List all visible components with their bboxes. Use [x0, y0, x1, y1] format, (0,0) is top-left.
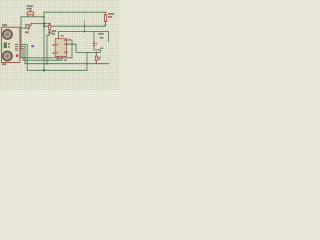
- wire top power rail: [44, 11, 106, 13]
- label near IC bottom right: [64, 59, 67, 61]
- wire R2 bottom to x=47 down: [47, 35, 50, 64]
- wire x=87 riser: [86, 52, 88, 70]
- IC right pins red: [66, 40, 68, 52]
- module label bottom: [2, 63, 7, 65]
- buzzer BUZ1 body: [27, 10, 34, 17]
- wire x=27 down / bottom y=70.3: [27, 44, 87, 70]
- blue text label: [31, 45, 34, 47]
- module label top: [2, 24, 7, 26]
- wire y=26.2: [44, 25, 106, 27]
- module pin labels: [15, 44, 18, 51]
- IC bottom pins red: [58, 57, 62, 59]
- R3 labels: [98, 57, 101, 60]
- crystal green: [4, 43, 7, 48]
- no-connect cross at IC bottom pin 1: [57, 58, 59, 60]
- buzzer label text: [27, 5, 33, 9]
- label right of LED lead: [100, 48, 103, 50]
- red pads: [8, 43, 10, 45]
- button label text: [25, 31, 29, 33]
- wire x=72 from IC pin down: [68, 40, 72, 58]
- button/sensor component: [26, 24, 31, 30]
- junction (44,26.2): [43, 25, 45, 27]
- label right mid (Mod): [98, 33, 103, 39]
- resistor R3 (right lower): [95, 53, 97, 64]
- resistor R1 labels: [108, 13, 114, 18]
- junction (84.5,26.2): [84, 25, 86, 27]
- wire riser to button: [30, 23, 32, 25]
- junction (84.5,31.5): [84, 31, 86, 33]
- background grid: [0, 0, 120, 90]
- junction (47,63.7): [46, 63, 48, 65]
- pin number near IC top pin: [61, 35, 64, 37]
- wire x=23 down / y=60.2 to IC bottom pin: [23, 48, 62, 60]
- junction (44,23.4): [43, 23, 45, 25]
- junction (96.3,52.4): [96, 52, 97, 53]
- module pins red: [20, 44, 22, 50]
- pin name texts right of IC: [67, 43, 69, 44]
- wire IC top pin stub: [58, 32, 60, 36]
- wire x=25 down / bottom rail y=63.7: [25, 46, 109, 63]
- wire rail y=31.5 with corner down at x=108.5: [59, 32, 109, 42]
- wire y=57.8 to IC right pin 1: [21, 57, 72, 59]
- wire buzzer row y=16.8: [21, 16, 44, 18]
- wire x=94 LED feed: [93, 32, 95, 42]
- junction (44,16.8): [43, 16, 45, 18]
- resistor R2 label: [48, 32, 52, 34]
- IC pin numbers: [56, 39, 66, 59]
- resistor R1 (top right): [104, 12, 106, 26]
- IC top pin red: [58, 35, 60, 38]
- transducer bottom: [3, 51, 12, 60]
- wire vertical x=44: [43, 12, 45, 70]
- wire IC right pin 2 to y=52.4 run and LED drop: [68, 44, 100, 52]
- wire x=84.5 short vertical: [84, 21, 86, 32]
- LED D1: [93, 41, 98, 49]
- IC label U1: [52, 30, 56, 35]
- module pin wires green: [22, 44, 28, 48]
- IC left pins dangling: [54, 45, 56, 53]
- wire left vertical x=21: [20, 17, 22, 58]
- wire button stub y=27.8: [21, 27, 26, 29]
- transducer top: [3, 30, 12, 39]
- ultrasonic module board: [2, 27, 22, 62]
- red part bottom right: [16, 54, 18, 57]
- junction (44,70.3): [43, 69, 45, 71]
- IC U1 body: [52, 35, 68, 58]
- wire y=23.4: [31, 22, 50, 24]
- resistor R2 (mid): [49, 23, 51, 35]
